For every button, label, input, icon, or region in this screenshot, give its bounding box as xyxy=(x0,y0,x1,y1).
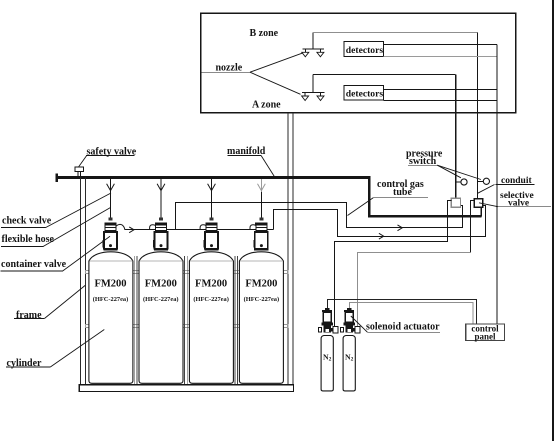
detectors box A zone xyxy=(344,85,384,100)
frame post between cylinders 3-4 xyxy=(235,256,238,385)
label flexible hose xyxy=(1,208,111,247)
selective valve 2 left pilot pipe (grey run to solenoid 2) xyxy=(358,253,471,328)
label A zone xyxy=(252,100,281,111)
conduit vertical to control panel xyxy=(496,45,498,325)
A zone discharge pipe horizontal xyxy=(313,74,456,76)
svg-text:tube: tube xyxy=(393,187,412,198)
solenoid actuator 2 xyxy=(340,308,360,333)
nozzle pair A zone xyxy=(302,92,325,100)
pilot tap 1: up-over-down to control line H2 toward selective valve 1 xyxy=(176,203,463,230)
svg-text:container valve: container valve xyxy=(1,259,67,270)
selective valve 2 (black box) xyxy=(474,199,482,208)
pressure switch 2 xyxy=(477,178,489,184)
label safety valve xyxy=(79,146,137,167)
detectors B wire lower (grey) xyxy=(384,56,498,58)
detectors A wire upper xyxy=(384,89,498,91)
svg-text:solenoid actuator: solenoid actuator xyxy=(366,322,440,333)
frame right upright (double) xyxy=(288,113,293,392)
B zone discharge pipe horizontal (grey) xyxy=(313,32,478,34)
selective valve 1 left pilot pipe down to solenoid line H4 xyxy=(335,201,452,328)
selective valve 2 bottom stub to manifold run xyxy=(480,207,482,216)
manifold drop + check valve, cylinder 3 xyxy=(208,179,216,218)
label B zone xyxy=(250,28,279,39)
label manifold xyxy=(227,146,274,176)
solenoid wire W1 to control panel xyxy=(328,300,477,325)
solenoid wire W2 to control panel (grey) xyxy=(350,303,474,325)
svg-text:detectors: detectors xyxy=(346,45,384,56)
selective valve 1 (grey box) xyxy=(451,198,460,207)
detectors A wire lower xyxy=(384,100,498,102)
svg-text:(HFC-227ea): (HFC-227ea) xyxy=(143,296,179,303)
label selective valve xyxy=(479,191,551,209)
svg-text:A zone: A zone xyxy=(252,100,281,111)
frame post between cylinders 1-2 xyxy=(134,256,137,385)
label cylinder xyxy=(6,330,104,370)
FM200 cylinder 4 xyxy=(239,252,283,383)
container valve cylinder 3 (hose to left) xyxy=(200,218,219,251)
svg-text:(HFC-227ea): (HFC-227ea) xyxy=(93,296,129,303)
pilot control gas line through container valves xyxy=(125,229,274,231)
container valve cylinder 1 (with hose to right) xyxy=(103,218,125,251)
A zone discharge pipe riser xyxy=(312,75,314,93)
frame rail lower (grey, behind cylinders) xyxy=(85,325,288,328)
frame post between cylinders 2-3 xyxy=(185,256,188,385)
label pressure switch xyxy=(406,148,481,179)
svg-text:FM200: FM200 xyxy=(94,278,126,289)
pilot tap 2: up-over-down to control line H3 toward selective valve 2 xyxy=(274,205,486,236)
detectors box B zone xyxy=(344,41,384,56)
manifold drop + check valve, cylinder 4 xyxy=(258,179,266,218)
manifold drop + check valve, cylinder 1 xyxy=(107,179,115,218)
svg-text:detectors: detectors xyxy=(346,89,384,100)
safety valve xyxy=(75,167,83,176)
flow arrow on H2 xyxy=(398,225,403,231)
svg-text:FM200: FM200 xyxy=(145,278,177,289)
svg-text:flexible hose: flexible hose xyxy=(2,234,55,245)
N2 pilot cylinder 2 xyxy=(343,336,355,391)
detectors B wire upper xyxy=(384,44,498,46)
manifold drop + check valve, cylinder 2 xyxy=(157,179,165,218)
label container valve xyxy=(1,236,111,271)
svg-text:panel: panel xyxy=(474,331,496,341)
svg-text:check valve: check valve xyxy=(2,216,52,227)
control panel xyxy=(466,324,505,342)
drawing sheet right border xyxy=(552,0,554,441)
label nozzle xyxy=(201,53,304,95)
svg-text:cylinder: cylinder xyxy=(7,358,43,369)
FM200 cylinder 2 xyxy=(139,252,183,383)
flow arrow on H3 xyxy=(379,233,384,239)
B zone discharge pipe down to selective valve 2 xyxy=(477,33,479,199)
frame rail upper (grey, behind cylinders) xyxy=(85,270,288,273)
selective valve 2 left pilot pipe (black part) xyxy=(471,201,475,253)
flow arrow on pilot line xyxy=(129,227,134,233)
protected room box xyxy=(201,13,516,113)
svg-text:B zone: B zone xyxy=(250,28,279,39)
svg-text:(HFC-227ea): (HFC-227ea) xyxy=(244,296,280,303)
N2 pilot cylinder 1 xyxy=(321,336,333,391)
manifold (thick) with elbow down and run to selective valves xyxy=(57,173,482,216)
svg-text:(HFC-227ea): (HFC-227ea) xyxy=(193,296,229,303)
label solenoid actuator xyxy=(351,316,440,333)
pressure switch 1 xyxy=(455,179,467,185)
A zone discharge pipe down to selective valve 1 xyxy=(455,75,457,199)
container valve cylinder 4 (hose to left) xyxy=(250,218,269,251)
label control gas tube xyxy=(348,179,429,216)
label check valve xyxy=(1,193,111,228)
B zone discharge pipe riser xyxy=(312,33,314,49)
svg-text:frame: frame xyxy=(16,310,42,321)
svg-text:FM200: FM200 xyxy=(245,278,277,289)
frame left upright (double) xyxy=(80,178,85,392)
svg-text:FM200: FM200 xyxy=(195,278,227,289)
FM200 cylinder 1 xyxy=(89,252,133,383)
nozzle pair B zone xyxy=(302,49,324,57)
label frame xyxy=(14,285,85,321)
label conduit xyxy=(478,176,535,193)
FM200 cylinder 3 xyxy=(189,252,233,383)
frame base plate xyxy=(79,385,293,392)
solenoid actuator 1 xyxy=(318,308,338,333)
container valve cylinder 2 (hose to left) xyxy=(150,218,169,251)
